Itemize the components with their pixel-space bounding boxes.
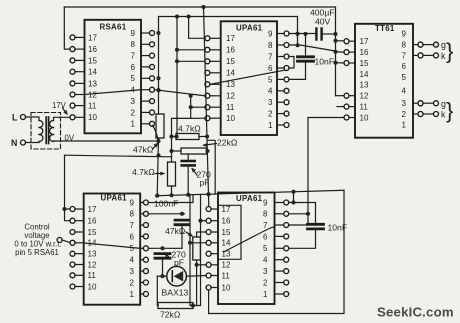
- U4 UPA61-BR pin 17: [206, 207, 211, 212]
- U3 UPA61-BL pin 14: [70, 240, 75, 245]
- junction U2 pin9 node: [295, 32, 299, 36]
- U2 UPA61-top pin 5: [284, 77, 289, 82]
- RSA61 pin 6: [150, 64, 155, 69]
- capacitor C2 10nF: [298, 55, 314, 58]
- svg-text:13: 13: [360, 81, 369, 90]
- svg-text:17: 17: [88, 33, 97, 42]
- IC RSA61 box: [85, 20, 142, 134]
- wire U3 pin5 right: [148, 247, 182, 249]
- svg-text:100nF: 100nF: [154, 199, 178, 209]
- U4 UPA61-BR pin 3: [284, 269, 289, 274]
- junction R3 feed at R4 top: [169, 149, 173, 153]
- svg-text:5: 5: [268, 75, 273, 84]
- wire U3 internal diagonal pin14-pin5: [84, 243, 141, 248]
- svg-text:RSA61: RSA61: [100, 23, 127, 32]
- U3 UPA61-BL pin 11: [70, 273, 75, 278]
- junction R5 at U4 pin12: [195, 263, 199, 267]
- svg-text:11: 11: [88, 102, 97, 111]
- svg-text:15: 15: [360, 59, 369, 68]
- junction rail3 C5: [186, 193, 190, 197]
- svg-text:3: 3: [130, 267, 135, 276]
- svg-text:TT61: TT61: [375, 24, 395, 33]
- wire rail3: [156, 190, 344, 195]
- svg-text:9: 9: [402, 30, 407, 39]
- TT61 pin 17: [344, 39, 349, 44]
- wire rail1 drop trunk to U4 pin17: [204, 7, 209, 207]
- wire rail3 to U4 pin9: [293, 192, 295, 203]
- U3 UPA61-BL pin 13: [70, 251, 75, 256]
- capacitor C5 270pF: [182, 160, 195, 163]
- junction D1 left node: [160, 274, 164, 278]
- wire TT61 pin10 to U4 pins8/7: [289, 118, 345, 226]
- U3 UPA61-BL pin 5: [143, 246, 148, 251]
- svg-text:3: 3: [402, 99, 407, 108]
- svg-text:6: 6: [402, 62, 407, 71]
- svg-text:8: 8: [402, 41, 407, 50]
- svg-text:1: 1: [402, 120, 407, 129]
- wire secondary top to RSA61 pin10: [54, 117, 71, 120]
- svg-text:17: 17: [226, 34, 235, 43]
- capacitor C6 270pF: [155, 252, 170, 255]
- wire TT supply vertical: [335, 7, 337, 96]
- U4 UPA61-BR pin 12: [206, 262, 211, 267]
- wire U2 pin16 to Va: [177, 49, 205, 51]
- junction Vc U4 pin16: [198, 219, 202, 223]
- U4 UPA61-BR pin 11: [206, 273, 211, 278]
- svg-text:4: 4: [263, 256, 268, 265]
- svg-text:5: 5: [131, 74, 136, 83]
- svg-text:1: 1: [268, 121, 273, 130]
- svg-text:UPA61: UPA61: [236, 24, 263, 33]
- wire RSA61 pin4 to U2 pin12: [154, 90, 205, 96]
- wire TT61 pin12 tap: [336, 95, 345, 97]
- wire D1 anode side: [157, 275, 167, 277]
- U4 UPA61-BR pin 8: [284, 211, 289, 216]
- wire Vd rail3 to bottom junction: [190, 195, 193, 306]
- TT61 pin 15: [344, 61, 349, 66]
- svg-text:14: 14: [88, 68, 97, 77]
- svg-text:}: }: [446, 98, 453, 123]
- wire rail1 left drop to RSA61 pin16: [64, 7, 70, 49]
- svg-text:6: 6: [130, 232, 135, 241]
- wire Ve rail2 to U2 pin17: [189, 17, 205, 39]
- junction C6 top: [160, 246, 164, 250]
- TT61 pin 16: [344, 50, 349, 55]
- U3 UPA61-BL pin 7: [143, 223, 148, 228]
- svg-text:6: 6: [268, 64, 273, 73]
- output TT61 pin2 k: [418, 112, 423, 117]
- svg-text:7: 7: [130, 221, 135, 230]
- wire R5 bottom lead: [196, 260, 198, 306]
- svg-text:11: 11: [88, 271, 97, 280]
- U3 UPA61-BL pin 10: [70, 284, 75, 289]
- junction feed at R2 left lead: [169, 134, 173, 138]
- junction rail2 Ve: [187, 14, 191, 18]
- wire left drop to U3 pin17/16: [65, 156, 71, 221]
- U2 UPA61-top pin 1: [284, 123, 289, 128]
- resistor R4 4.7kOhm vertical: [168, 162, 176, 186]
- U2 UPA61-top pin 11: [205, 105, 210, 110]
- wire TT61 pin11 stub: [337, 106, 344, 108]
- wire right frame down: [209, 190, 344, 313]
- U4 UPA61-BR pin 6: [284, 234, 289, 239]
- U2 UPA61-top pin 4: [284, 88, 289, 93]
- junction trunk x158 at RSA61 pin5: [156, 76, 160, 80]
- svg-text:BAX13: BAX13: [162, 288, 189, 298]
- wire U2 pin7 to pin6: [289, 57, 294, 69]
- svg-text:}: }: [446, 39, 453, 64]
- svg-text:5: 5: [402, 73, 407, 82]
- diode D1 BAX13 symbol: [174, 271, 184, 282]
- junction rail1-midcolumn: [201, 5, 205, 9]
- wire U4 pin12 tap: [197, 264, 207, 266]
- junction trunk at R3 right: [205, 149, 209, 153]
- U4 UPA61-BR pin 1: [284, 292, 289, 297]
- IC U2 UPA61 top box: [221, 21, 277, 135]
- junction feed at U2 pin11: [189, 105, 193, 109]
- svg-text:UPA61: UPA61: [101, 193, 128, 202]
- RSA61 pin 3: [150, 99, 155, 104]
- wire C3 bottom to U4 pin5: [289, 229, 316, 248]
- svg-text:15: 15: [222, 228, 231, 237]
- svg-text:16: 16: [226, 46, 235, 55]
- wire U2 pin10 to feed: [191, 117, 205, 119]
- wire C3 top lead: [315, 203, 317, 225]
- U3 UPA61-BL pin 6: [143, 234, 148, 239]
- IC TT61 box: [355, 24, 413, 138]
- junction trunk x158 at pin4 line: [156, 88, 160, 92]
- wire U2 pin11 to feed: [191, 106, 205, 108]
- wire 0V line: [54, 140, 159, 142]
- U4 UPA61-BR pin 4: [284, 257, 289, 262]
- junction rail3 U4pin17 column: [206, 192, 210, 196]
- svg-text:6: 6: [263, 232, 268, 241]
- svg-text:10: 10: [360, 113, 369, 122]
- TT61 pin 2: [418, 112, 423, 117]
- junction Va at U2 pin16: [175, 48, 179, 52]
- U4 UPA61-BR pin 9: [284, 200, 289, 205]
- svg-text:17: 17: [222, 205, 231, 214]
- junction TT pin17 tap: [333, 39, 337, 43]
- wire C5 bottom lead: [187, 165, 189, 194]
- junction rail2 Va: [175, 14, 179, 18]
- RSA61 pin 2: [150, 110, 155, 115]
- wire U2 pin15 to Va: [177, 60, 205, 62]
- svg-text:12: 12: [222, 261, 231, 270]
- RSA61 pin 4: [150, 87, 155, 92]
- wire U4 internal diagonal pin13-pin7: [224, 227, 275, 253]
- svg-text:3: 3: [263, 267, 268, 276]
- svg-text:5: 5: [130, 244, 135, 253]
- svg-text:10: 10: [88, 282, 97, 291]
- junction rail3 R4: [169, 193, 173, 197]
- svg-text:1: 1: [263, 290, 268, 299]
- junction rail3 U4pin9 link: [291, 190, 295, 194]
- svg-text:17: 17: [360, 37, 369, 46]
- svg-text:2: 2: [131, 108, 136, 117]
- svg-text:14: 14: [222, 239, 231, 248]
- svg-text:15: 15: [88, 228, 97, 237]
- svg-text:2: 2: [402, 110, 407, 119]
- svg-text:10nF: 10nF: [315, 57, 335, 67]
- wire TT61 pin15 tap: [336, 62, 345, 64]
- svg-text:8: 8: [268, 41, 273, 50]
- svg-text:12: 12: [226, 92, 235, 101]
- U3 UPA61-BL pin 1: [143, 292, 148, 297]
- U4 UPA61-BR pin 16: [206, 218, 211, 223]
- diode D1 BAX13 circle: [167, 266, 187, 286]
- resistor R3 22kOhm horizontal: [181, 148, 207, 154]
- wire R4 top lead: [171, 151, 173, 162]
- TT61 pin 7: [418, 53, 423, 58]
- capacitor C4 100nF: [175, 219, 189, 222]
- wire TT61 pin17 tap: [336, 40, 345, 42]
- svg-text:8: 8: [263, 210, 268, 219]
- U3 UPA61-BL pin 4: [143, 257, 148, 262]
- resistor R1 47kOhm vertical: [156, 114, 164, 138]
- svg-text:12: 12: [88, 90, 97, 99]
- terminal control voltage: [57, 238, 62, 243]
- RSA61 pin 9: [150, 31, 155, 36]
- svg-text:13: 13: [88, 79, 97, 88]
- U2 UPA61-top pin 6: [284, 66, 289, 71]
- wire C6 bottom lead: [162, 258, 164, 276]
- U3 UPA61-BL pin 9: [143, 200, 148, 205]
- svg-text:14: 14: [360, 70, 369, 79]
- U2 UPA61-top pin 3: [284, 100, 289, 105]
- wire C4 bottom to U3 pin5 line: [181, 225, 183, 249]
- wire U2 pins12-11-10 feed: [172, 96, 191, 151]
- transformer T1 dashed box: [31, 113, 61, 150]
- svg-text:4.7kΩ: 4.7kΩ: [132, 167, 155, 177]
- svg-text:15: 15: [226, 57, 235, 66]
- wire U2 pin9 to C1: [289, 33, 316, 35]
- svg-text:2: 2: [263, 278, 268, 287]
- junction R2 left end: [175, 134, 179, 138]
- svg-text:2: 2: [268, 110, 273, 119]
- RSA61 pin 14: [70, 69, 75, 74]
- svg-text:pF: pF: [200, 178, 210, 188]
- svg-text:7: 7: [263, 221, 268, 230]
- wire RSA61 pin1 curve to R1 bottom node: [153, 126, 159, 144]
- output TT61 pin7 k: [418, 53, 423, 58]
- junction pin10drop at U4 pin8: [306, 212, 310, 216]
- output TT61 pin8 g: [418, 42, 423, 47]
- wire D1 left to R6: [156, 276, 159, 305]
- wire C2 column: [305, 34, 307, 56]
- junction U4 pin9 rail3 link: [291, 200, 295, 204]
- junction C2 column top: [303, 32, 307, 36]
- RSA61 pin 16: [70, 47, 75, 52]
- wire feed tap to R2 left: [172, 136, 177, 138]
- svg-text:9: 9: [263, 198, 268, 207]
- junction Vd U4 pin14: [188, 241, 192, 245]
- IC U4 UPA61 bottom-right box: [218, 193, 275, 305]
- resistor R5 47kOhm vertical: [193, 237, 201, 260]
- RSA61 pin 11: [70, 103, 75, 108]
- junction U2 pin8 at rail2 drop: [296, 43, 300, 47]
- wire U4 pin16 tap: [201, 220, 207, 222]
- wire U4 internal box: [218, 205, 241, 259]
- wire R2 right lead: [199, 136, 207, 138]
- svg-text:SeekIC.com: SeekIC.com: [377, 305, 454, 320]
- RSA61 pin 15: [70, 58, 75, 63]
- U4 UPA61-BR pin 10: [206, 285, 211, 290]
- resistor R6 72kOhm horizontal: [158, 303, 193, 309]
- svg-text:16: 16: [88, 217, 97, 226]
- U3 UPA61-BL pin 16: [70, 218, 75, 223]
- svg-text:9: 9: [130, 198, 135, 207]
- TT61 pin 11: [344, 104, 349, 109]
- U2 UPA61-top pin 9: [284, 31, 289, 36]
- U4 UPA61-BR pin 14: [206, 240, 211, 245]
- svg-text:7: 7: [131, 52, 136, 61]
- RSA61 pin 17: [70, 35, 75, 40]
- wire R6 right lead: [193, 305, 197, 307]
- wire RSA61 internal diagonal pin12-pin4: [85, 90, 142, 95]
- svg-text:47kΩ: 47kΩ: [165, 226, 186, 236]
- junction rail3 R1: [155, 194, 159, 198]
- U2 UPA61-top pin 16: [205, 47, 210, 52]
- svg-text:12: 12: [88, 260, 97, 269]
- wire U4 pin8 to drop: [289, 213, 308, 215]
- TT61 pin 12: [344, 93, 349, 98]
- wire trunk x158 (rail2 to R1 top): [158, 17, 160, 115]
- svg-text:22kΩ: 22kΩ: [217, 138, 238, 148]
- junction R6 right: [191, 303, 195, 307]
- wire U4 pin14 tap: [190, 242, 206, 244]
- svg-text:7: 7: [402, 51, 407, 60]
- wire Vc rail3 to bottom junction: [197, 194, 201, 305]
- U2 UPA61-top pin 17: [205, 36, 210, 41]
- svg-text:14: 14: [226, 69, 235, 78]
- svg-text:UPA61: UPA61: [236, 194, 263, 203]
- svg-text:1: 1: [130, 290, 135, 299]
- wire rail2 right drop to U2 pin9 node: [297, 17, 299, 34]
- output TT61 pin3 g: [418, 101, 423, 106]
- svg-text:2: 2: [130, 278, 135, 287]
- U2 UPA61-top pin 12: [205, 93, 210, 98]
- svg-text:11: 11: [222, 271, 231, 280]
- svg-text:10: 10: [226, 114, 235, 123]
- U3 UPA61-BL pin 3: [143, 269, 148, 274]
- svg-text:16: 16: [88, 45, 97, 54]
- svg-text:3: 3: [131, 97, 136, 106]
- transformer T1 primary winding: [39, 121, 43, 128]
- svg-text:4.7kΩ: 4.7kΩ: [178, 124, 201, 134]
- junction Va at U2 pin15: [175, 59, 179, 63]
- wire R5 top to U4 pin15: [197, 232, 207, 237]
- svg-text:4: 4: [130, 256, 135, 265]
- U2 UPA61-top pin 10: [205, 116, 210, 121]
- U4 UPA61-BR pin 15: [206, 230, 211, 235]
- RSA61 pin 7: [150, 53, 155, 58]
- svg-text:8: 8: [131, 40, 136, 49]
- TT61 pin 8: [418, 42, 423, 47]
- svg-text:72kΩ: 72kΩ: [160, 310, 181, 320]
- wire 0V branch line y155: [65, 155, 172, 157]
- U4 UPA61-BR pin 5: [284, 246, 289, 251]
- U3 UPA61-BL pin 12: [70, 262, 75, 267]
- junction TT supply top: [333, 32, 337, 36]
- RSA61 pin 1: [150, 121, 155, 126]
- RSA61 pin 10: [70, 115, 75, 120]
- wire U4 pin10 drop to bottom rail: [208, 290, 210, 314]
- svg-text:pin 5 RSA61: pin 5 RSA61: [15, 248, 59, 257]
- junction U3 pin17 tap: [62, 207, 66, 211]
- junction R1 bottom at 0V line: [156, 139, 160, 143]
- svg-text:N: N: [11, 138, 17, 148]
- U2 UPA61-top pin 7: [284, 54, 289, 59]
- U2 UPA61-top pin 15: [205, 59, 210, 64]
- wire top rail 2: [159, 16, 298, 18]
- wire TT61 pin16 tap: [336, 51, 345, 53]
- svg-text:L: L: [12, 113, 18, 123]
- svg-text:7: 7: [268, 52, 273, 61]
- svg-text:11: 11: [360, 103, 369, 112]
- wire Va rail2 to R2 left: [176, 17, 178, 134]
- wire U3 pin17 stub to drop: [65, 208, 71, 210]
- wire R1 bottom lead to rail3: [157, 138, 158, 196]
- RSA61 pin 12: [70, 92, 75, 97]
- wire D1 cathode to U4 pin11: [186, 275, 206, 278]
- RSA61 pin 13: [70, 81, 75, 86]
- wire R4 bottom lead: [171, 186, 173, 195]
- wire secondary bottom to 0V: [53, 140, 55, 143]
- wire C5 top lead: [187, 154, 189, 161]
- svg-text:11: 11: [226, 103, 235, 112]
- svg-text:17: 17: [88, 205, 97, 214]
- svg-text:10: 10: [88, 113, 97, 122]
- U4 UPA61-BR pin 13: [206, 251, 211, 256]
- svg-text:47kΩ: 47kΩ: [133, 145, 154, 155]
- RSA61 pin 8: [150, 42, 155, 47]
- U3 UPA61-BL pin 17: [70, 207, 75, 212]
- junction TT pin16 tap: [333, 50, 337, 54]
- transformer T1 core: [45, 117, 47, 144]
- junction trunk x158 at RSA61 pin9: [156, 31, 160, 35]
- TT61 pin 10: [344, 115, 349, 120]
- svg-text:16: 16: [360, 48, 369, 57]
- U4 UPA61-BR pin 7: [284, 223, 289, 228]
- svg-text:17V: 17V: [52, 101, 67, 110]
- U2 UPA61-top pin 13: [205, 82, 210, 87]
- capacitor C3 10nF: [308, 223, 324, 226]
- svg-text:12: 12: [360, 92, 369, 101]
- junction trunk at R2 right: [205, 134, 209, 138]
- wire U2 pin8 right: [289, 45, 336, 51]
- svg-text:3: 3: [268, 98, 273, 107]
- svg-text:9: 9: [131, 29, 136, 38]
- svg-text:40V: 40V: [315, 17, 331, 27]
- svg-text:6: 6: [131, 63, 136, 72]
- wire C2 bottom to U2 pin5: [289, 61, 306, 79]
- junction line155 at x158 trunk: [156, 153, 160, 157]
- wire U2 internal diagonal pin13-pin6: [210, 70, 284, 84]
- resistor R2 4.7kOhm horizontal: [176, 134, 199, 140]
- svg-text:9: 9: [268, 29, 273, 38]
- U2 UPA61-top pin 8: [284, 43, 289, 48]
- TT61 pin 3: [418, 101, 423, 106]
- transformer T1 secondary winding: [50, 121, 54, 128]
- wire U3 pin9 to rail3: [148, 195, 193, 203]
- wire trunk branch to rail3: [207, 140, 215, 194]
- U3 UPA61-BL pin 8: [143, 211, 148, 216]
- wire U4 pin9 right: [289, 202, 316, 204]
- wire U3 pin8 right: [148, 213, 184, 215]
- svg-text:16: 16: [222, 217, 231, 226]
- wire C1 right to TT61 supply: [322, 33, 336, 35]
